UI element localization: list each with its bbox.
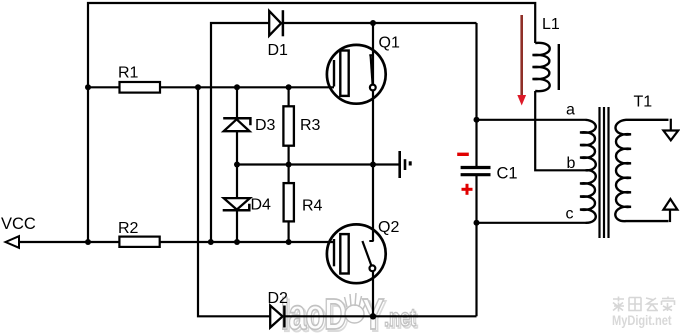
wire C1 branch vertical (475, 23, 477, 166)
svg-text:R1: R1 (118, 65, 139, 82)
svg-text:D2: D2 (268, 290, 289, 307)
VCC arrow (6, 236, 20, 248)
junction mid bus / D3-D4 (234, 162, 240, 168)
svg-text:c: c (566, 206, 574, 223)
svg-text:D4: D4 (251, 197, 272, 214)
wire L1 down to b (535, 91, 585, 170)
wire x211 (211, 23, 270, 242)
svg-text:R2: R2 (118, 220, 139, 237)
svg-text:R3: R3 (300, 117, 321, 134)
junction C1 top / node a wire (474, 117, 480, 123)
svg-text:D1: D1 (268, 42, 289, 59)
junction left rail / VCC row (85, 239, 91, 245)
pseudo hanzi 2 (629, 298, 641, 311)
wire D1 to C1 top (284, 22, 477, 24)
svg-text:a: a (566, 102, 575, 119)
zener D3 (223, 87, 275, 164)
wire top rail (88, 3, 535, 242)
svg-text:laoD: laoD (281, 290, 347, 335)
svg-text:C1: C1 (497, 165, 518, 183)
svg-text:D3: D3 (255, 117, 276, 134)
diode D2 (270, 306, 282, 328)
junction mid bus / ground tap (370, 162, 376, 168)
wire row D (285, 315, 477, 317)
svg-text:L1: L1 (542, 16, 560, 33)
resistor R4 (284, 165, 323, 243)
junction VCC row / R4 bottom (286, 239, 292, 245)
inductor L1 (533, 43, 559, 91)
wire row B mid bus (237, 163, 399, 165)
svg-text:Q1: Q1 (379, 35, 400, 52)
junction R1 row / D2 branch (195, 84, 201, 90)
pseudo hanzi 1 (613, 297, 624, 312)
transformer T1 secondary (615, 120, 668, 221)
watermark MyDigit (612, 297, 675, 329)
svg-text:T1: T1 (634, 94, 653, 111)
svg-text:b: b (567, 155, 576, 172)
junction D1 wire / Q1 top (370, 20, 376, 26)
svg-text:VCC: VCC (1, 215, 36, 233)
wire VCC row C (19, 241, 335, 243)
secondary bottom terminal (669, 210, 671, 223)
resistor R3 (283, 87, 320, 164)
pseudo hanzi 4 (662, 297, 675, 312)
junction C1 bottom / node c wire (474, 220, 480, 226)
wire x198 down to row D (198, 87, 270, 316)
junction mid bus / R3-R4 (286, 162, 292, 168)
diode D1 (269, 11, 281, 36)
wire c row (477, 222, 586, 224)
resistor R2 (119, 237, 159, 247)
wire a row (477, 119, 586, 121)
red current arrow (517, 15, 526, 106)
transistor Q2 (327, 165, 400, 317)
junction VCC row / D1 branch (208, 239, 214, 245)
svg-text:R4: R4 (302, 198, 323, 215)
wire Q1 collector line (372, 23, 374, 165)
svg-text:MyDigit.net: MyDigit.net (612, 313, 672, 328)
junction VCC row / D4 bottom (234, 239, 240, 245)
junction R1 row / R3 top (286, 84, 292, 90)
junction left rail / R1 row (85, 84, 91, 90)
capacitor C1 (457, 154, 517, 195)
watermark laoDY.net (281, 290, 418, 335)
ground (400, 151, 411, 178)
transformer core (600, 107, 609, 238)
pseudo hanzi 3 (646, 298, 658, 311)
secondary top terminal (670, 119, 672, 131)
junction bottom rail / Q2 bottom (370, 313, 376, 319)
svg-text:Q2: Q2 (378, 219, 399, 236)
transformer T1 primary (580, 120, 596, 223)
resistor R1 (120, 82, 161, 93)
wire row A (88, 86, 334, 88)
junction R1 row / D3 top (234, 84, 240, 90)
transistor Q1 (327, 35, 400, 104)
zener D4 (223, 165, 271, 243)
